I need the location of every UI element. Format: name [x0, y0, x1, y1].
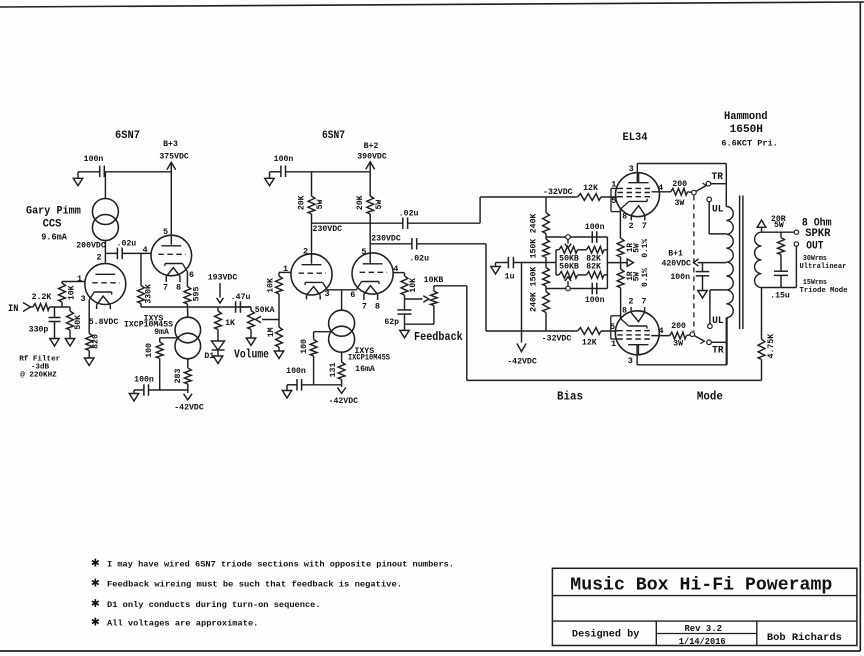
wire -42VDC bias feed: [517, 263, 526, 352]
capacitor 100n (stage1 bias): [134, 384, 149, 396]
pin 4 label V1b: [142, 245, 147, 255]
node bottom wiper contact: [566, 286, 571, 291]
svg-text:-42VDC: -42VDC: [329, 397, 359, 406]
ground (820): [85, 358, 94, 366]
resistor R 150K (upper): [543, 239, 550, 258]
label 100n (stage2 top): [274, 155, 294, 164]
ground (330p): [50, 339, 59, 347]
switch pole (bottom): [686, 332, 694, 337]
svg-text:✱: ✱: [91, 555, 100, 571]
wire input node: [50, 306, 71, 308]
svg-text:1: 1: [77, 274, 82, 284]
wire TR to plate line (bottom): [711, 341, 727, 343]
resistor R 595: [184, 287, 191, 308]
resistor R 1R 5W (top): [617, 238, 624, 269]
svg-text:330K: 330K: [144, 284, 153, 304]
svg-text:3W: 3W: [674, 199, 684, 208]
svg-text:4: 4: [658, 326, 663, 336]
wire 12K to EL34 grid: [601, 196, 618, 198]
current source CCS3 (IXYS 16mA): [329, 310, 355, 352]
ground (D1): [213, 356, 222, 364]
wire 62p bottom rail: [405, 324, 434, 330]
svg-text:OUT: OUT: [806, 240, 824, 252]
label 100n (bottom trimmer): [585, 296, 605, 305]
svg-text:100n: 100n: [134, 375, 154, 384]
label B+3: [163, 140, 178, 149]
terminal SPKR -: [794, 242, 798, 246]
title block divider 1: [655, 621, 657, 645]
pin 5 label V1b: [163, 227, 168, 237]
node 193VDC pointer arrow: [217, 283, 224, 303]
svg-text:390VDC: 390VDC: [357, 153, 387, 162]
label Hammond: [724, 111, 768, 123]
svg-text:1: 1: [611, 339, 616, 349]
label 50K: [74, 315, 83, 330]
ground (1M): [274, 351, 283, 359]
label 131: [329, 363, 338, 378]
pentode U1 EL34 (top): [611, 173, 660, 221]
label 100n (top trimmer): [585, 223, 605, 232]
resistor R 1M: [276, 327, 283, 351]
wire CCS1 to node 2: [104, 241, 106, 264]
svg-text:50KA: 50KA: [255, 306, 275, 315]
svg-text:240K: 240K: [529, 292, 538, 312]
wire B+2 rail: [286, 171, 371, 173]
tube label EL34: [623, 132, 648, 144]
svg-text:20K: 20K: [297, 195, 306, 210]
resistor R 4.75K feedback: [758, 339, 765, 380]
triode V1b (6SN7 b): [151, 235, 192, 282]
wire cathode V1b to 595: [186, 272, 188, 287]
label 5W (left): [316, 199, 325, 209]
wire UL tap (top): [709, 202, 726, 234]
pin 2 label V2a: [303, 246, 308, 256]
capacitor 100n (stage2 bias): [287, 379, 302, 391]
wire node to CCS: [104, 172, 106, 199]
capacitor C1 100n (B+3 bypass): [100, 166, 105, 178]
transformer core: [740, 196, 743, 330]
label IXCP10M45S: [124, 321, 173, 330]
secondary polarity arrow: [757, 220, 766, 232]
ground (100n B+2): [265, 178, 274, 186]
triode V2b (6SN7): [352, 253, 393, 300]
label 1K: [225, 319, 235, 328]
svg-text:3: 3: [80, 294, 85, 304]
wire B+3 down to V1b plate: [170, 162, 172, 244]
wire top EL34 plate to OPT: [637, 164, 726, 207]
switch gang dashed line: [693, 195, 695, 331]
resistor R 1R 5W (bottom): [617, 269, 624, 319]
wire top EL34 screen: [652, 191, 671, 193]
node top wiper contact: [566, 235, 571, 240]
trimmer 50KB (bottom): [559, 272, 578, 279]
wire V2a plate to .02u: [312, 222, 403, 224]
pin 4 label V2b: [393, 264, 398, 274]
label 1R (bottom): [627, 271, 635, 281]
resistor R 20R 5W zobel: [778, 232, 785, 254]
svg-text:7: 7: [641, 297, 646, 307]
label 200VDC: [76, 242, 106, 251]
note bullet 4: [91, 615, 100, 631]
pin 7 label (top EL34): [642, 221, 647, 231]
pin 7 label V1b: [163, 283, 168, 293]
svg-text:3W: 3W: [673, 340, 683, 349]
resistor R 100 (stage1): [156, 338, 163, 390]
wire plate node V2b: [369, 214, 371, 264]
wire 10KB top to feedback line: [434, 285, 467, 287]
wire common cathode rail: [328, 289, 357, 291]
label 100 (stage2): [300, 339, 309, 354]
wire -42 rail stage2: [302, 384, 342, 386]
svg-text:5W: 5W: [375, 200, 384, 210]
svg-text:Bias: Bias: [557, 390, 583, 404]
svg-text:0.1%: 0.1%: [642, 268, 650, 287]
svg-text:50K: 50K: [74, 315, 83, 330]
capacitor 1u: [496, 257, 547, 269]
capacitor 100n (bottom trimmer): [592, 283, 597, 295]
label Mode: [697, 390, 723, 404]
pin 3 label (top EL34): [629, 164, 634, 174]
resistor R 12K (bottom grid): [578, 328, 602, 335]
svg-text:230VDC: 230VDC: [371, 235, 401, 244]
label -32VDC (bottom): [542, 335, 572, 344]
wire secondary to 4.75K: [761, 288, 763, 340]
label Ultralinear: [800, 263, 847, 271]
svg-text:5.8VDC: 5.8VDC: [89, 318, 119, 327]
wire to 10KB wiper: [405, 296, 429, 303]
wire trimmer output: [607, 262, 627, 264]
note bullet 2: [91, 576, 100, 592]
label Rev 3.2: [684, 623, 722, 634]
wire chain node A: [545, 234, 547, 240]
label 283: [174, 369, 183, 384]
resistor R 820: [86, 334, 93, 359]
label Designed by: [572, 628, 640, 640]
svg-text:-32VDC: -32VDC: [542, 335, 572, 344]
svg-text:@ 220KHZ: @ 220KHZ: [20, 371, 57, 379]
svg-text:6: 6: [350, 290, 355, 300]
label 30Wrms: [803, 255, 827, 263]
switch pole (top): [688, 190, 697, 195]
label 5W (zobel): [774, 221, 784, 230]
svg-text:Ultralinear: Ultralinear: [800, 263, 847, 271]
resistor R 10K (feedback): [401, 273, 408, 299]
svg-text:3: 3: [628, 356, 633, 366]
label 50KB (top): [559, 255, 579, 264]
resistor R 240K (bottom): [543, 292, 550, 313]
wire CCS3 tap: [314, 331, 331, 333]
svg-text:CCS: CCS: [43, 219, 62, 231]
svg-text:.02u: .02u: [409, 254, 429, 263]
switch contact TR (top): [706, 181, 711, 186]
potentiometer 10KB: [431, 286, 438, 324]
svg-text:I may have wired 6SN7 triode s: I may have wired 6SN7 triode sections wi…: [107, 559, 454, 569]
svg-text:10KB: 10KB: [424, 276, 444, 285]
svg-text:6SN7: 6SN7: [322, 130, 345, 142]
svg-text:✱: ✱: [91, 576, 100, 592]
svg-text:Mode: Mode: [697, 390, 723, 404]
label 0.1% (bottom): [642, 268, 650, 287]
svg-text:Gary Pimm: Gary Pimm: [26, 206, 81, 218]
pin 7 label V2b: [362, 302, 367, 312]
svg-text:240K: 240K: [529, 213, 538, 233]
pentode U2 EL34 (bottom): [611, 307, 660, 355]
label 10K input: [68, 285, 77, 300]
wiper 50KA: [256, 316, 280, 323]
label IN: [8, 303, 18, 315]
svg-text:0.1%: 0.1%: [642, 239, 650, 258]
capacitor 100n (top trimmer): [592, 231, 597, 243]
svg-text:Music Box Hi-Fi Poweramp: Music Box Hi-Fi Poweramp: [570, 575, 832, 595]
label D1: [204, 352, 214, 361]
wire trimmer top branch: [556, 249, 607, 251]
svg-text:100: 100: [300, 339, 309, 354]
label 240K (bottom): [529, 292, 538, 312]
resistor R 150K (lower): [543, 268, 550, 287]
label 20R: [771, 215, 786, 224]
wire chain mid node: [545, 258, 547, 268]
svg-text:50KB: 50KB: [559, 263, 579, 272]
label 0.1% (top): [642, 239, 650, 258]
capacitor .02u (top coupling): [403, 217, 408, 229]
wire top cathode to 1R: [619, 208, 621, 238]
power B+2 arrow: [366, 162, 375, 169]
transformer T1 primary winding: [726, 207, 733, 365]
wire trimmer right vertical: [606, 237, 608, 289]
label 230VDC (V2a): [313, 225, 343, 234]
label .02u (top): [399, 209, 419, 218]
triode V2a (6SN7): [291, 254, 332, 300]
label 420VDC: [661, 260, 691, 269]
label 820: [91, 334, 100, 349]
pin 2 label (top EL34): [628, 221, 633, 231]
wire chain bottom stub: [545, 313, 547, 332]
label 5.8VDC: [89, 318, 119, 327]
capacitor .02u (bottom coupling): [412, 238, 417, 250]
svg-text:B+1: B+1: [668, 250, 683, 259]
label 20K (right): [356, 195, 365, 210]
svg-text:✱: ✱: [91, 596, 100, 612]
wire grid V2b to 10K: [393, 272, 404, 274]
label 50KA: [255, 306, 275, 315]
svg-text:283: 283: [174, 369, 183, 384]
resistor R 200 3W (bottom): [670, 332, 687, 339]
svg-text:12K: 12K: [582, 338, 597, 347]
ground (1u): [491, 267, 500, 275]
label 8 Ohm: [802, 218, 832, 230]
resistor 82K (bottom): [587, 272, 605, 279]
label IXCP10M45S (stage2): [348, 354, 390, 363]
wire top grid rail: [480, 196, 577, 198]
tube label 6SN7 (second stage): [322, 130, 345, 142]
svg-text:100n: 100n: [84, 155, 104, 164]
pin 8 label (bottom EL34): [622, 307, 627, 316]
pin 4 label (top EL34): [658, 183, 663, 193]
power B+3 arrow: [167, 162, 176, 169]
triode V1a (6SN7 a): [85, 264, 126, 310]
label 100n (stage1): [134, 375, 154, 384]
label 16mA: [355, 365, 375, 374]
resistor R 10K grid (input): [59, 282, 66, 308]
label 1u: [505, 273, 515, 282]
svg-text:Feedback: Feedback: [414, 331, 463, 344]
svg-text:8: 8: [375, 302, 380, 312]
pin 2 label V1a: [96, 253, 101, 263]
wire wiper to grid node: [278, 295, 280, 328]
label B+1: [668, 250, 683, 259]
title Music Box Hi-Fi Poweramp: [570, 575, 832, 595]
label Bob Richards: [767, 632, 842, 644]
resistor R 1K: [215, 307, 222, 341]
resistor R 131: [338, 352, 345, 385]
label Gary Pimm: [26, 206, 81, 218]
resistor 82K (top): [587, 246, 605, 253]
svg-text:5W: 5W: [316, 199, 325, 209]
title block frame: [552, 568, 857, 645]
label 1M: [267, 327, 276, 337]
svg-text:10K: 10K: [68, 285, 77, 300]
label 10KB: [424, 276, 444, 285]
label Volume: [234, 349, 269, 362]
wire trimmer mid tap: [546, 262, 556, 264]
ground (50K): [65, 339, 74, 347]
svg-text:SPKR: SPKR: [805, 228, 831, 240]
svg-text:7: 7: [642, 221, 647, 231]
label TR (top): [712, 171, 724, 183]
label 1/14/2016: [679, 636, 726, 647]
svg-text:EL34: EL34: [623, 132, 648, 144]
label 240K (top): [529, 213, 538, 233]
label 9.6mA: [41, 233, 67, 243]
wire chain top stub: [545, 197, 547, 213]
wire chain node B: [545, 286, 547, 292]
svg-text:100n: 100n: [585, 223, 605, 232]
note Rf Filter: [19, 355, 60, 379]
svg-text:D1 only conducts during turn-o: D1 only conducts during turn-on sequence…: [107, 600, 321, 610]
svg-text:10K: 10K: [267, 278, 276, 293]
pin 1 label (top EL34): [611, 180, 616, 190]
svg-text:1M: 1M: [267, 327, 276, 337]
label 5W (top): [633, 243, 641, 253]
pin 2 label (bottom EL34): [628, 297, 633, 307]
svg-text:330p: 330p: [29, 326, 49, 335]
wire rail to CCS2: [187, 307, 189, 317]
label 20K (left): [297, 195, 306, 210]
svg-text:230VDC: 230VDC: [313, 225, 343, 234]
resistor R 50K: [67, 307, 74, 339]
svg-text:Feedback wireing must be such: Feedback wireing must be such that feedb…: [107, 580, 402, 590]
pin 5 label (bottom EL34): [610, 322, 615, 332]
label .15u: [770, 291, 790, 300]
label 10K (feedback): [409, 278, 418, 293]
power -42VDC arrow (stage2): [337, 385, 345, 394]
note bullet 3: [91, 596, 100, 612]
label 150K (upper): [529, 239, 538, 259]
pin 3 label V2a: [324, 289, 329, 299]
label 2.2K: [32, 293, 52, 302]
pin 1 label V1a: [77, 274, 82, 284]
svg-text:62p: 62p: [384, 318, 399, 327]
label 62p: [384, 318, 399, 327]
svg-text:595: 595: [193, 287, 202, 302]
svg-text:-32VDC: -32VDC: [543, 188, 573, 197]
wire bottom EL34 plate to OPT: [637, 318, 727, 365]
current source CCS2 (IXYS): [175, 317, 201, 359]
label .47u: [231, 293, 251, 302]
current source CCS1 (Gary Pimm): [92, 199, 118, 241]
wire trimmer left vertical: [555, 250, 557, 275]
wire B+3 rail: [104, 171, 171, 173]
wire 330K to rail: [140, 304, 142, 308]
svg-text:.02u: .02u: [117, 240, 137, 249]
svg-text:10K: 10K: [409, 278, 418, 293]
svg-text:Volume: Volume: [234, 349, 269, 362]
wire 12K to EL34 grid (bottom): [601, 330, 618, 332]
resistor R 20K 5W (V2a plate): [308, 196, 315, 214]
capacitor C2 .02u coupling: [117, 248, 122, 260]
label 200 (bottom): [671, 322, 686, 331]
label SPKR: [805, 228, 831, 240]
pin 4 label (bottom EL34): [658, 326, 663, 336]
label 330K: [144, 284, 153, 304]
note bullet 1: [91, 555, 100, 571]
label 12K (top): [583, 184, 598, 193]
label -42VDC (bias): [507, 357, 537, 366]
wire left plate branch: [311, 172, 313, 196]
wire C2 to node 4: [122, 252, 151, 254]
svg-text:7: 7: [163, 283, 168, 293]
resistor R 330K: [138, 286, 145, 304]
svg-text:150K: 150K: [529, 267, 538, 287]
wire grid V2a: [279, 271, 291, 273]
svg-text:Designed by: Designed by: [572, 628, 640, 640]
resistor R 10K (V2a grid): [276, 272, 283, 294]
svg-text:Rev 3.2: Rev 3.2: [684, 623, 722, 634]
label UL (bottom): [712, 315, 724, 327]
svg-text:2.2K: 2.2K: [32, 293, 52, 302]
wire C1 left to ground: [78, 172, 100, 179]
wire secondary bottom: [762, 246, 797, 287]
label 595: [193, 287, 202, 302]
note line 3: [107, 600, 321, 610]
svg-text:200VDC: 200VDC: [76, 242, 106, 251]
wire feedback vertical: [466, 286, 468, 381]
label 375VDC: [159, 153, 189, 162]
svg-text:193VDC: 193VDC: [208, 274, 238, 283]
note line 4: [107, 619, 258, 629]
label .02u (bottom): [409, 254, 429, 263]
note line 1: [107, 559, 454, 569]
svg-text:-42VDC: -42VDC: [174, 403, 204, 412]
title block line under title: [552, 595, 857, 597]
svg-text:12K: 12K: [583, 184, 598, 193]
svg-text:B+3: B+3: [163, 140, 178, 149]
svg-text:Triode Mode: Triode Mode: [800, 287, 848, 295]
capacitor .15u: [774, 255, 788, 288]
wire secondary top: [762, 231, 795, 233]
svg-text:6.6KCT Pri.: 6.6KCT Pri.: [721, 139, 778, 149]
resistor R 12K (top grid): [578, 194, 602, 201]
svg-text:Hammond: Hammond: [724, 111, 768, 123]
switch blade (top): [696, 183, 706, 191]
svg-text:5W: 5W: [633, 243, 641, 253]
svg-text:15Wrms: 15Wrms: [803, 279, 827, 287]
wire node2 to C2: [105, 252, 117, 254]
border right edge: [859, 2, 861, 651]
label -42VDC (stage2): [329, 397, 359, 406]
label OUT: [806, 240, 824, 252]
wire grid V1a: [62, 281, 85, 283]
